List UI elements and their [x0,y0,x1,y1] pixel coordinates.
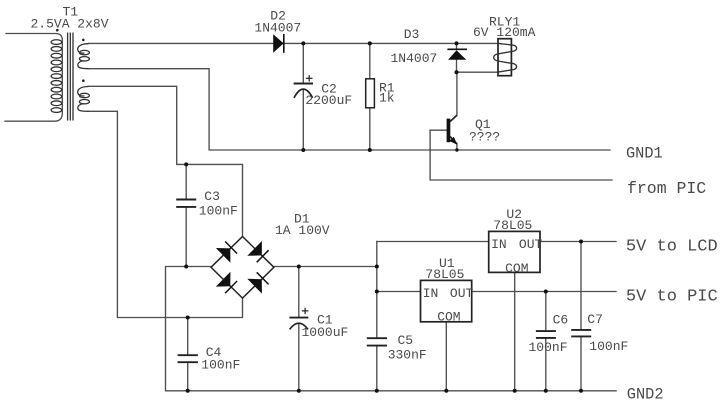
svg-text:6V 120mA: 6V 120mA [473,25,536,40]
svg-text:GND2: GND2 [627,385,664,403]
svg-text:1000uF: 1000uF [302,325,349,340]
svg-text:C3: C3 [204,189,220,204]
svg-text:78L05: 78L05 [493,218,532,233]
svg-text:1N4007: 1N4007 [391,51,438,66]
svg-text:from PIC: from PIC [627,179,706,198]
svg-text:COM: COM [505,261,528,276]
svg-text:5V to PIC: 5V to PIC [626,288,718,307]
svg-text:5V to LCD: 5V to LCD [626,238,718,257]
svg-text:C6: C6 [553,313,569,328]
svg-text:1A 100V: 1A 100V [275,223,330,238]
svg-text:OUT: OUT [519,237,543,252]
svg-text:1k: 1k [379,91,395,106]
svg-text:78L05: 78L05 [425,267,464,282]
svg-text:100nF: 100nF [529,340,568,355]
svg-text:C5: C5 [398,333,414,348]
svg-text:100nF: 100nF [201,358,240,373]
svg-text:C7: C7 [587,312,603,327]
svg-text:1N4007: 1N4007 [254,20,301,35]
svg-text:????: ???? [469,130,500,145]
svg-text:2.5VA 2x8V: 2.5VA 2x8V [31,17,109,32]
svg-text:100nF: 100nF [199,204,238,219]
svg-text:OUT: OUT [450,286,474,301]
svg-text:IN: IN [491,237,507,252]
svg-text:D3: D3 [404,27,420,42]
svg-text:330nF: 330nF [388,348,427,363]
svg-text:COM: COM [437,309,460,324]
svg-text:100nF: 100nF [589,339,628,354]
svg-text:GND1: GND1 [626,145,663,163]
svg-text:2200uF: 2200uF [305,93,352,108]
svg-text:IN: IN [423,286,439,301]
